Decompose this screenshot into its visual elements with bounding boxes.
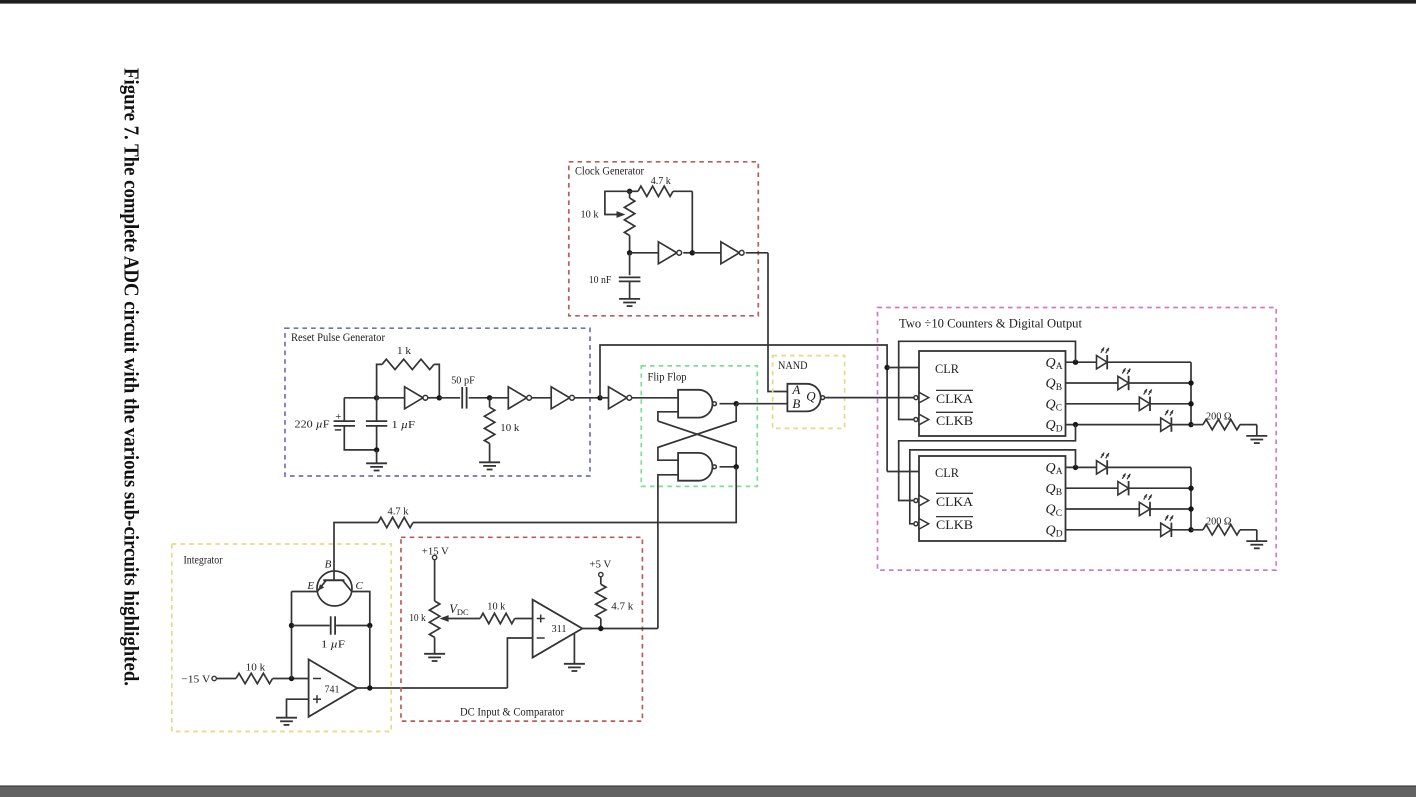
transistor Q1 (reset switch): [317, 571, 352, 606]
svg-text:200 Ω: 200 Ω: [1206, 516, 1232, 528]
wire emitter: [292, 591, 318, 593]
inverter U2: [721, 242, 739, 264]
wire QC (1) to LED: [1066, 403, 1140, 405]
node integrator inverting input: [289, 676, 294, 681]
node rail QC (1): [1188, 401, 1193, 406]
wire 311 ground stem: [573, 634, 575, 664]
wire R8 to comparator: [515, 618, 533, 620]
wire LED DC (2) to rail: [1150, 508, 1191, 510]
ground (rpg): [366, 462, 387, 464]
wire U7 input B stub: [658, 412, 678, 421]
clock wedge CLKB (2): [914, 522, 918, 526]
LED DC (1): [1139, 397, 1150, 410]
node CLK1 (top): [627, 189, 632, 194]
svg-text:50 pF: 50 pF: [451, 374, 475, 386]
svg-text:CLKB: CLKB: [936, 517, 973, 532]
node rail QB (2): [1188, 486, 1193, 491]
wire LED DA (2) to rail: [1107, 466, 1191, 468]
clock wedge CLKA (1): [914, 396, 918, 400]
svg-text:D: D: [1056, 424, 1063, 434]
node rail QD (1): [1188, 422, 1193, 427]
ground (clock): [619, 298, 640, 300]
ground (counter 2): [1246, 540, 1267, 542]
svg-text:Q: Q: [1046, 377, 1056, 392]
pin plus (741): [313, 698, 321, 700]
terminal -15 V: [212, 676, 216, 680]
svg-text:4.7 k: 4.7 k: [651, 175, 671, 187]
resistor R9 4.7 k (pull-up): [600, 577, 602, 584]
svg-text:A: A: [1056, 362, 1063, 372]
potentiometer R7 10 k: [434, 560, 436, 601]
node QA1: [1073, 360, 1078, 365]
svg-text:Q: Q: [806, 389, 816, 404]
pin minus (311): [537, 637, 545, 639]
wire main to inverter U3: [377, 397, 405, 399]
flip flop box: [641, 366, 757, 487]
svg-text:A: A: [1056, 467, 1063, 477]
LED DC (2): [1139, 502, 1150, 515]
svg-text:4.7 k: 4.7 k: [388, 506, 409, 518]
resistor R1 4.7 k (feedback): [630, 190, 638, 192]
clock generator box: [569, 162, 759, 316]
wire LED rail (2): [1190, 467, 1192, 529]
wire node to inverter U2: [692, 252, 721, 254]
svg-text:Clock Generator: Clock Generator: [575, 164, 644, 178]
svg-text:Two ÷10 Counters & Digital Out: Two ÷10 Counters & Digital Output: [899, 316, 1082, 331]
svg-text:Q: Q: [1046, 418, 1056, 433]
svg-text:10 k: 10 k: [487, 601, 505, 613]
wire LED DC (1) to rail: [1150, 403, 1191, 405]
node comparator output: [598, 626, 603, 631]
svg-text:E: E: [306, 580, 314, 592]
wire reset to CLR2: [887, 471, 919, 473]
wire to ground (2): [1256, 530, 1258, 541]
node CLK2: [627, 250, 632, 255]
wire node to inverter U6: [600, 397, 609, 399]
svg-text:Q: Q: [1046, 503, 1056, 518]
svg-text:Q: Q: [1046, 482, 1056, 497]
comparator U11 311: [533, 600, 583, 658]
wire QB (2) to LED: [1066, 487, 1118, 489]
resistor 200 ohm (2): [1191, 529, 1203, 531]
svg-text:CLKB: CLKB: [936, 413, 973, 428]
wire collector: [352, 592, 370, 626]
node rail QD (2): [1188, 527, 1193, 532]
resistor R4 10 k (to ground): [489, 398, 491, 407]
node FF input: [597, 395, 602, 400]
svg-text:Q: Q: [1046, 397, 1056, 412]
svg-text:10 k: 10 k: [246, 661, 266, 673]
svg-text:4.7 k: 4.7 k: [611, 600, 634, 612]
dc input comparator box: [401, 537, 642, 721]
svg-text:+5 V: +5 V: [589, 558, 611, 570]
svg-text:Figure 7. The complete ADC cir: Figure 7. The complete ADC circuit with …: [120, 68, 144, 686]
inverter U5: [551, 387, 569, 409]
node cap right: [367, 623, 372, 628]
wire U8 input B stub: [658, 475, 678, 629]
wire node to inverter U1: [630, 252, 659, 254]
wire QA (1) to LED: [1066, 361, 1097, 363]
svg-text:+15 V: +15 V: [422, 545, 449, 557]
resistor R5 4.7 k (reset): [378, 517, 413, 527]
capacitor C2 220 uF (electrolytic): [343, 398, 345, 421]
wire LED DD (2) to rail: [1171, 529, 1191, 531]
wire to C4: [439, 397, 460, 399]
wire clock to NAND input A: [768, 253, 787, 392]
svg-text:10 k: 10 k: [500, 422, 519, 434]
svg-text:Q: Q: [1046, 461, 1056, 476]
resistor R6 10 k (input): [236, 673, 273, 683]
wire pot wiper loop: [605, 191, 630, 214]
nand gate U8 (FF bottom): [678, 453, 712, 481]
label minus: [335, 429, 341, 431]
resistor R8 10 k (series): [480, 613, 515, 623]
svg-text:C: C: [1056, 404, 1062, 414]
pot wiper VDC: [447, 618, 480, 620]
svg-text:A: A: [791, 382, 800, 397]
bottom bar: [0, 785, 1416, 787]
svg-text:Reset Pulse Generator: Reset Pulse Generator: [291, 330, 385, 344]
wire cross coupling B: [658, 421, 736, 467]
svg-text:10 k: 10 k: [409, 612, 426, 624]
nand gate U9: [787, 384, 820, 412]
node QD1: [1073, 422, 1078, 427]
ground (pot): [424, 653, 445, 655]
svg-text:CLKA: CLKA: [936, 494, 974, 509]
wire LED DA (1) to rail: [1107, 361, 1191, 363]
wire QD1 cascade to CLKA2: [899, 425, 1076, 501]
wire QD (1) to LED: [1066, 424, 1161, 426]
wire inverting input from 741: [507, 638, 532, 688]
node 741 output: [367, 685, 372, 690]
ground (741): [276, 717, 297, 719]
wire QC (2) to LED: [1066, 508, 1140, 510]
LED DA (2): [1097, 461, 1108, 474]
svg-text:B: B: [1056, 383, 1062, 393]
wire U7 out: [720, 403, 737, 405]
node FF Q: [734, 401, 739, 406]
wire U4 to U5: [532, 397, 552, 399]
capacitor C1 10 nF: [629, 253, 631, 275]
wire R6 to op-amp: [273, 678, 309, 680]
node QA2: [1073, 465, 1078, 470]
svg-text:Flip Flop: Flip Flop: [648, 370, 687, 384]
wire 311 output: [582, 628, 658, 630]
wire non-inverting to ground: [287, 699, 309, 717]
wire NAND Q to counter CLKA1: [825, 397, 914, 399]
svg-text:C: C: [1056, 509, 1062, 519]
wire LED DB (1) to rail: [1129, 382, 1191, 384]
pin plus (311): [537, 618, 545, 620]
potentiometer R2 10 k (vertical): [629, 191, 631, 198]
LED DA (1): [1097, 356, 1108, 369]
wire QA2 feedback to CLKB2: [910, 450, 1076, 524]
svg-text:220 µF: 220 µF: [295, 419, 330, 431]
ground (311): [564, 663, 585, 665]
capacitor C4 50 pF: [461, 387, 463, 409]
node RPG1: [374, 395, 379, 400]
wire U1 to node: [683, 252, 692, 254]
svg-text:10 k: 10 k: [581, 209, 599, 221]
ground (counter 1): [1246, 435, 1267, 437]
LED DB (2): [1118, 482, 1129, 495]
inverter U3: [405, 387, 423, 409]
LED DD (1): [1161, 418, 1172, 431]
wire 741 output: [357, 687, 507, 689]
wire QD (2) to LED: [1066, 529, 1161, 531]
svg-text:Q: Q: [1046, 356, 1056, 371]
svg-text:D: D: [1056, 530, 1063, 540]
capacitor C3 1 uF: [376, 398, 378, 421]
pin minus (741): [313, 678, 321, 680]
wire clock output: [746, 252, 768, 254]
wire U6 to flip flop: [632, 397, 678, 399]
svg-text:CLR: CLR: [935, 361, 959, 376]
node FF Qbar: [734, 464, 739, 469]
svg-text:+: +: [335, 412, 341, 423]
inverter U4: [508, 387, 526, 409]
wire LED rail (1): [1190, 362, 1192, 424]
terminal +5 V: [599, 572, 603, 576]
ground (rpg R4): [479, 461, 500, 463]
wire FF Qbar to integrator reset: [413, 467, 736, 523]
svg-text:Q: Q: [1046, 523, 1056, 538]
terminal +15 V: [432, 555, 436, 559]
node cap left: [289, 623, 294, 628]
svg-text:B: B: [1056, 488, 1062, 498]
inverter U6: [609, 387, 627, 409]
node RPG ground junction: [374, 447, 379, 452]
wire node to inverter U4: [490, 397, 509, 399]
svg-text:741: 741: [325, 683, 340, 695]
wire U3 out: [428, 397, 440, 399]
inverter U1: [658, 242, 676, 264]
wire QA (2) to LED: [1066, 466, 1097, 468]
counter 2 body: [919, 456, 1066, 541]
svg-text:B: B: [792, 396, 800, 411]
node rail QB (1): [1188, 380, 1193, 385]
wire QA1 feedback to CLKB1: [899, 341, 1076, 419]
resistor R3 1 k (feedback): [377, 364, 382, 397]
wire C4 to node: [469, 397, 490, 399]
svg-text:CLR: CLR: [935, 465, 959, 480]
capacitor C5 1 uF (integrator): [292, 625, 330, 627]
integrator box: [172, 544, 391, 732]
LED DB (1): [1118, 376, 1129, 389]
op-amp U10 741: [309, 659, 358, 716]
svg-text:1 k: 1 k: [397, 345, 412, 357]
node reset to CLR: [884, 365, 889, 370]
nand box: [773, 356, 845, 429]
wire inverting input riser: [291, 592, 293, 679]
node RPG3: [487, 395, 492, 400]
svg-text:1 µF: 1 µF: [392, 419, 416, 431]
wire FF Q to NAND input B: [736, 403, 787, 405]
svg-text:B: B: [325, 558, 332, 570]
wire cross coupling A: [658, 404, 736, 461]
svg-text:DC Input & Comparator: DC Input & Comparator: [460, 704, 564, 718]
svg-text:10 nF: 10 nF: [589, 274, 612, 286]
clock wedge CLKB (1): [914, 418, 918, 422]
wire cap right to output: [369, 626, 371, 689]
wire -15V to R6: [216, 678, 236, 680]
wire LED DB (2) to rail: [1129, 487, 1191, 489]
svg-text:CLKA: CLKA: [936, 391, 974, 406]
clock wedge CLKA (2): [914, 499, 918, 503]
top bar: [0, 0, 1416, 4]
wire R5 to transistor base: [334, 523, 378, 572]
wire reset to CLR1: [887, 367, 919, 369]
svg-text:200 Ω: 200 Ω: [1206, 410, 1232, 422]
reset pulse generator box: [285, 328, 590, 476]
svg-text:311: 311: [552, 623, 567, 635]
wire main left segment: [344, 397, 376, 399]
wire feedback right vertical: [691, 191, 693, 253]
wire LED DD (1) to rail: [1171, 424, 1191, 426]
svg-text:1 µF: 1 µF: [321, 638, 345, 650]
svg-text:−15 V: −15 V: [181, 674, 210, 686]
counter 1 body: [919, 351, 1066, 436]
wire to ground: [376, 450, 378, 463]
wire U5 out: [574, 397, 600, 399]
svg-text:Integrator: Integrator: [184, 554, 223, 566]
node rail QC (2): [1188, 506, 1193, 511]
node CLK3: [690, 250, 695, 255]
svg-text:C: C: [356, 580, 364, 592]
wire QB (1) to LED: [1066, 382, 1118, 384]
wire to ground (1): [1256, 425, 1258, 436]
counters box: [878, 308, 1277, 571]
resistor 200 ohm (1): [1191, 424, 1203, 426]
wire reset line: [600, 345, 887, 472]
wire U8 out: [720, 466, 737, 468]
LED DD (2): [1161, 523, 1172, 536]
node RPG2: [437, 395, 442, 400]
svg-text:NAND: NAND: [778, 358, 808, 372]
nand gate U7 (FF top): [678, 390, 712, 418]
